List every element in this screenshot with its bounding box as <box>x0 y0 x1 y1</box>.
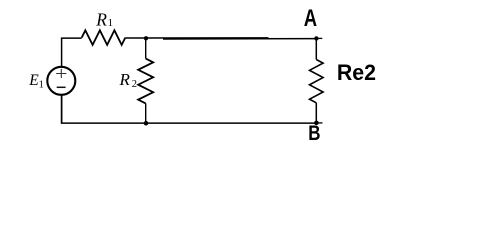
svg-text:R: R <box>95 10 107 30</box>
wire R2 top <box>145 38 147 58</box>
node A dot <box>314 36 318 40</box>
wire top-left corner: left vertical + top horizontal to R1 <box>62 38 82 67</box>
plus sign of E1 <box>56 69 66 78</box>
node B stub <box>316 122 322 124</box>
resistor Re2 <box>310 60 324 103</box>
wire overlapping lower stroke to node A <box>163 38 317 40</box>
svg-text:Re2: Re2 <box>337 60 376 85</box>
svg-text:1: 1 <box>39 79 44 90</box>
wire R2 bottom <box>145 103 147 123</box>
svg-text:1: 1 <box>108 17 114 29</box>
wire left vertical below source <box>61 95 63 123</box>
voltage source E1 <box>47 67 75 95</box>
resistor R1 <box>82 30 126 45</box>
node junction dot R2 bottom <box>144 121 149 126</box>
wire R1 to node, upper stroke <box>125 37 268 39</box>
minus sign of E1 <box>57 86 66 88</box>
node junction dot R1/R2 <box>144 36 148 40</box>
svg-text:B: B <box>308 123 320 146</box>
node B dot <box>314 121 319 126</box>
wire bottom: from source corner to node B <box>62 95 317 123</box>
node A stub <box>316 37 322 39</box>
wire Re2 top <box>315 38 317 59</box>
svg-text:2: 2 <box>132 79 137 90</box>
svg-text:A: A <box>304 5 317 32</box>
resistor R2 <box>138 59 153 104</box>
wire Re2 bottom <box>315 103 317 123</box>
svg-text:R: R <box>119 70 131 89</box>
